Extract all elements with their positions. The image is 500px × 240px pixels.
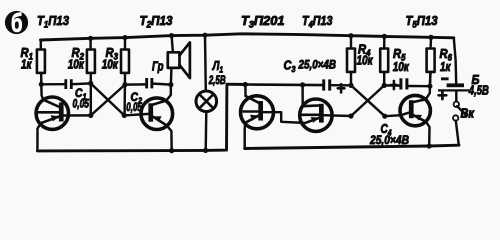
transistor T4 [300,85,351,131]
transistor T2 [124,68,172,151]
resistor R6 [427,37,435,86]
node: C4 / R5 junction [382,83,387,88]
node: T3 collector at bus [243,82,248,87]
node: rail junction R4 [348,33,353,38]
resistor R4 [347,36,355,86]
svg-text:Т5П13: Т5П13 [406,13,439,30]
node: rail junction R6 [428,35,433,40]
node: rail junction R2 [88,36,93,41]
svg-text:10к: 10к [357,53,374,68]
wire: cross-coupling diagonal C1 junction to T2 base node [91,83,125,115]
speaker Гр [168,36,190,79]
capacitor C2 [125,78,171,88]
node: rail junction lamp [202,33,207,38]
node: T1 collector / C1 [39,82,44,87]
node: rail junction R3 [122,35,127,40]
transistor T3 (П201) [241,85,305,149]
svg-text:25,0×4В: 25,0×4В [298,58,337,72]
transistor T1 [36,84,91,150]
resistor R5 [380,36,388,85]
resistor R3 [121,38,129,116]
node: T4 collector at bus [300,82,305,87]
wire: collector bus to C3 [245,83,322,86]
resistor R2 [87,38,95,115]
node: C3 / R4 junction [348,83,353,88]
svg-text:Т2П13: Т2П13 [140,13,174,30]
svg-text:б: б [11,7,23,37]
minus sign battery [441,77,449,80]
plus sign C4 [391,81,398,89]
badge б [5,7,28,37]
node: T2 emitter at rail [169,148,174,153]
wire: right bottom rail (emitter/battery net) [245,145,459,148]
capacitor C4 [384,78,430,89]
node: C2 / R3 junction [122,82,127,87]
battery Б [438,38,469,102]
svg-text:10к: 10к [68,57,85,72]
plus sign C3 [338,84,345,92]
plus sign battery [439,92,447,100]
node: rail junction R5 [382,34,387,39]
transistor T5 [385,72,431,146]
svg-text:10к: 10к [102,57,119,72]
node: T5 base [382,114,387,119]
node: T2 base [122,113,127,118]
svg-text:Т4П13: Т4П13 [302,13,333,30]
svg-text:1к: 1к [21,57,33,72]
wire: left bottom rail (T3 collector net) [37,84,245,151]
svg-text:Т3П201: Т3П201 [241,13,285,30]
node: T5 emitter at rail [427,143,432,148]
resistor R1 [37,40,45,84]
svg-text:2,5В: 2,5В [208,73,226,87]
svg-text:Вк: Вк [461,107,475,121]
node: C2 / T2 collector [168,82,173,87]
capacitor C1 [41,79,90,89]
svg-text:10к: 10к [393,59,410,74]
switch Вк [453,102,466,146]
lamp Л1 [196,35,217,150]
svg-text:Т1П13: Т1П13 [37,13,70,30]
node: C4 / T5 collector [427,84,432,89]
node: C1 / R2 junction [88,81,93,86]
wire: right cross-coupling diagonal R4/C3 node to T5 base node [351,85,385,116]
svg-text:4,5В: 4,5В [468,84,489,98]
wire: top supply rail [41,34,454,40]
capacitor C3 [322,79,351,90]
node: rail junction speaker [169,33,174,38]
svg-text:1к: 1к [440,59,452,74]
svg-text:Гр: Гр [152,60,164,74]
node: T4 base [348,113,353,118]
wire: right cross-coupling diagonal R5/C4 node to T4 base node [351,85,384,116]
svg-text:0,05: 0,05 [73,97,90,111]
node: lamp at rail [203,148,208,153]
wire: cross-coupling diagonal C2 junction to T1 base node [91,85,125,116]
svg-text:25,0×4В: 25,0×4В [369,133,409,147]
node: T1 base [88,113,93,118]
